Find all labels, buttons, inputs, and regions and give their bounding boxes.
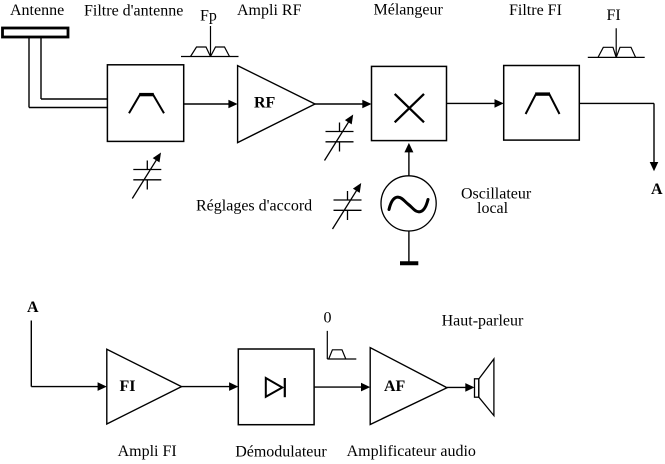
svg-text:0: 0 (324, 310, 332, 327)
svg-text:AF: AF (384, 378, 406, 395)
svg-text:Fp: Fp (200, 8, 217, 25)
svg-text:Mélangeur: Mélangeur (374, 2, 444, 19)
svg-text:Démodulateur: Démodulateur (235, 444, 327, 461)
svg-text:Ampli FI: Ampli FI (118, 443, 177, 460)
svg-text:A: A (651, 181, 663, 198)
svg-text:Filtre d'antenne: Filtre d'antenne (84, 3, 183, 20)
svg-text:A: A (27, 299, 39, 316)
svg-text:Antenne: Antenne (10, 2, 64, 19)
svg-text:Haut-parleur: Haut-parleur (442, 312, 524, 329)
svg-text:Ampli RF: Ampli RF (237, 2, 302, 19)
svg-text:local: local (477, 200, 509, 217)
svg-text:FI: FI (120, 378, 136, 395)
svg-text:Filtre FI: Filtre FI (509, 2, 562, 19)
svg-text:RF: RF (254, 95, 276, 112)
svg-text:FI: FI (607, 7, 621, 24)
svg-text:Réglages d'accord: Réglages d'accord (196, 198, 312, 215)
svg-text:Amplificateur audio: Amplificateur audio (347, 443, 476, 460)
